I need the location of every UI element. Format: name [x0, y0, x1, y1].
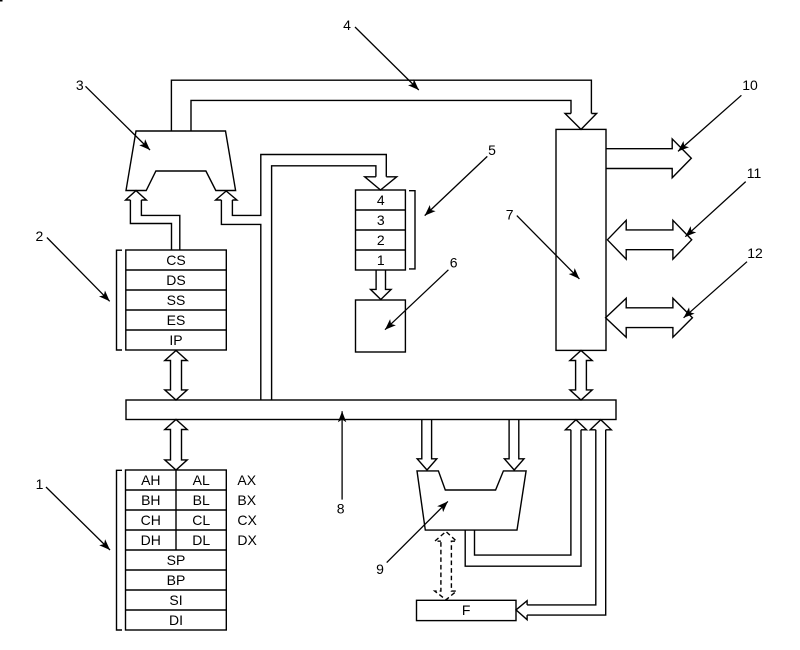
svg-text:BH: BH: [141, 492, 160, 508]
svg-text:2: 2: [377, 232, 385, 248]
svg-text:11: 11: [747, 165, 762, 181]
svg-text:DX: DX: [237, 532, 257, 548]
svg-text:CH: CH: [141, 512, 161, 528]
svg-text:CL: CL: [192, 512, 210, 528]
svg-text:10: 10: [742, 77, 758, 93]
svg-text:BP: BP: [167, 572, 186, 588]
svg-text:1: 1: [377, 252, 385, 268]
svg-text:DH: DH: [141, 532, 161, 548]
svg-text:2: 2: [36, 228, 44, 244]
svg-text:AH: AH: [141, 472, 160, 488]
svg-text:3: 3: [377, 212, 385, 228]
svg-text:9: 9: [376, 561, 384, 577]
svg-text:DI: DI: [169, 612, 183, 628]
svg-text:BL: BL: [193, 492, 210, 508]
svg-text:4: 4: [343, 17, 351, 33]
svg-text:1: 1: [36, 476, 44, 492]
svg-text:CS: CS: [166, 252, 185, 268]
svg-text:SI: SI: [169, 592, 182, 608]
svg-text:ES: ES: [167, 312, 186, 328]
svg-text:BX: BX: [237, 492, 256, 508]
svg-text:5: 5: [488, 142, 496, 158]
svg-text:IP: IP: [169, 332, 182, 348]
svg-text:8: 8: [337, 501, 345, 517]
svg-text:DL: DL: [192, 532, 210, 548]
svg-text:12: 12: [747, 245, 763, 261]
svg-text:CX: CX: [237, 512, 257, 528]
svg-text:DS: DS: [166, 272, 185, 288]
svg-text:SS: SS: [167, 292, 186, 308]
svg-text:AX: AX: [237, 472, 256, 488]
svg-text:F: F: [462, 602, 471, 618]
svg-text:4: 4: [377, 192, 385, 208]
svg-text:AL: AL: [193, 472, 210, 488]
svg-text:3: 3: [76, 77, 84, 93]
svg-text:SP: SP: [167, 552, 186, 568]
svg-text:7: 7: [506, 207, 514, 223]
svg-text:6: 6: [450, 255, 458, 271]
